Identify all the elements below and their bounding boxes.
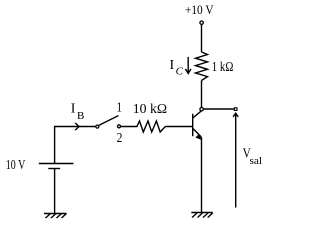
svg-text:1: 1 — [117, 100, 123, 115]
svg-text:2: 2 — [117, 131, 123, 146]
svg-text:I: I — [170, 58, 175, 73]
svg-text:1 kΩ: 1 kΩ — [212, 60, 234, 75]
svg-text:I: I — [71, 101, 76, 116]
svg-text:10 kΩ: 10 kΩ — [133, 102, 167, 117]
svg-text:B: B — [77, 110, 84, 122]
svg-text:sal: sal — [250, 155, 263, 167]
svg-text:+10 V: +10 V — [185, 3, 214, 17]
svg-text:10 V: 10 V — [6, 158, 26, 173]
svg-text:C: C — [176, 66, 184, 78]
